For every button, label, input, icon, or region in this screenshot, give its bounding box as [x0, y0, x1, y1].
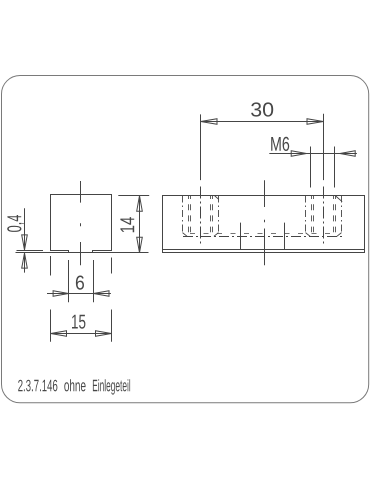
dimension M6 arrow pointing right	[291, 151, 306, 157]
dimension M6 line	[269, 153, 357, 155]
left hole bottom cone diagonals	[183, 233, 219, 237]
right hole top chamfer diagonal	[335, 196, 342, 202]
text 14 rotated	[120, 217, 134, 232]
caption Einlegeteil	[93, 379, 130, 394]
caption ohne	[64, 379, 85, 391]
dimension 15 arrow left	[51, 331, 67, 337]
dimension 6 arrow right	[94, 291, 110, 297]
dimension 14 top extension line	[118, 195, 149, 197]
front view outline with bottom rib	[51, 195, 112, 253]
dimension 15 arrow right	[96, 331, 112, 337]
dimension 14 arrow down	[137, 237, 143, 253]
dimension 0,4 arrow up	[22, 253, 28, 268]
side view inner bottom line	[163, 249, 365, 251]
left hole centerline	[200, 114, 202, 180]
text 30	[251, 102, 273, 116]
dimension 14 line	[139, 196, 141, 253]
dimension 15 extension lines	[51, 256, 112, 342]
text 6	[76, 276, 84, 290]
dimension 15 line	[51, 333, 112, 335]
caption 2.3.7.146	[18, 380, 57, 392]
dimension 0,4 arrow down	[22, 235, 28, 250]
front view vertical centerline	[80, 181, 82, 265]
drawing frame border	[2, 76, 369, 403]
left hole top chamfer diagonal	[214, 196, 218, 200]
horizontal channel centerline	[183, 236, 342, 238]
text M6	[271, 137, 289, 151]
right hole bottom cone diagonals	[306, 233, 342, 237]
side view outline	[163, 196, 365, 253]
left hole outer dash-dot lines	[183, 196, 219, 233]
right hole outer dash-dot lines	[306, 196, 342, 233]
dimension 30 line	[201, 121, 324, 123]
left hole thread hidden lines	[189, 196, 213, 233]
text 15	[72, 315, 85, 329]
dimension 6 extension lines	[68, 260, 70, 302]
text 0,4 rotated	[7, 215, 24, 232]
dimension M6 extension line right	[334, 147, 336, 188]
side view inner solid vertical right	[284, 223, 286, 250]
side view middle centerline	[264, 180, 266, 265]
side view inner solid vertical left	[240, 223, 242, 250]
dimension 30 arrow left	[201, 119, 217, 125]
horizontal channel hidden line	[190, 233, 337, 235]
right hole thread hidden lines	[312, 196, 336, 233]
dimension M6 extension line left	[310, 147, 312, 188]
outer-bottom-level extension line	[17, 250, 44, 252]
dimension M6 arrow pointing left	[340, 151, 355, 157]
dimension 14 arrow up	[137, 196, 143, 212]
dimension 6 line	[47, 293, 111, 295]
dimension 30 arrow right	[307, 119, 323, 125]
dimension 0,4 leader lines	[24, 208, 26, 249]
dimension 6 arrow left	[53, 291, 68, 297]
rib-level extension line	[16, 252, 149, 254]
right hole centerline	[323, 114, 325, 180]
